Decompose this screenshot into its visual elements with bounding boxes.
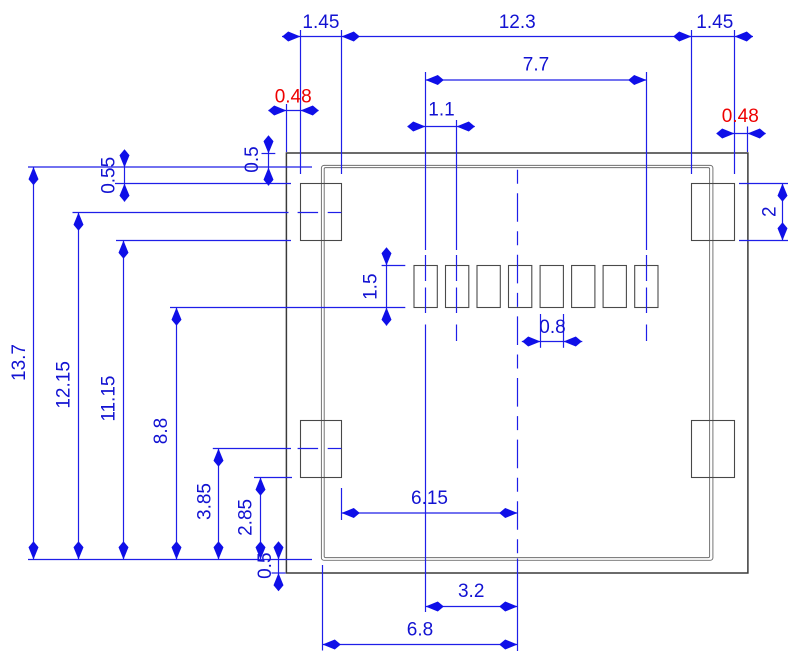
svg-text:2.85: 2.85 (236, 499, 257, 536)
vertical centerline of footprint (dashed) (517, 170, 519, 651)
extension line pad BL bottom edge (2.85) (254, 477, 292, 479)
extension line pad BL right edge for dim 6.15 (341, 488, 343, 520)
dim label 0.5 bottom (255, 552, 276, 578)
pad8 centerline / extension for dim 7.7 (646, 72, 648, 341)
svg-text:8.8: 8.8 (151, 418, 172, 444)
signal pads row (8 pads) (414, 266, 658, 308)
extension lines pad TR for dim 2 (739, 184, 788, 241)
extension line pad TR right edge (734, 30, 736, 174)
dim label 0.8 (539, 317, 565, 338)
dim 13.7 (29, 167, 39, 560)
dim label 2 (760, 206, 781, 217)
svg-text:3.85: 3.85 (194, 483, 215, 520)
pad1 centerline / extension line for dims 7.7, 1.1, 3.2 (425, 72, 427, 612)
dim label 8.8 (151, 418, 172, 444)
svg-text:0.5: 0.5 (242, 146, 263, 172)
dim label 6.8 (407, 620, 433, 641)
dim 0.48 right (red) (716, 129, 766, 139)
dim 7.7 (426, 75, 647, 85)
svg-text:0.5: 0.5 (255, 552, 276, 578)
dim label 1.5 (361, 273, 382, 299)
svg-text:0.55: 0.55 (98, 157, 119, 194)
dim label 1.1 (428, 99, 454, 120)
dim label 13.7 (9, 344, 30, 381)
svg-text:2: 2 (760, 206, 781, 217)
mounting pad bottom-right (692, 421, 735, 478)
dim 0.5 bottom (274, 541, 284, 591)
extension lines pad5 edges for dim 0.8 (541, 314, 564, 348)
extension line + TL pad centerline (12.15) (73, 212, 342, 214)
dim 6.8 (323, 640, 518, 650)
extension line + BL pad centerline (3.85) (213, 448, 342, 450)
svg-text:0.8: 0.8 (539, 317, 565, 338)
extension line pad TL bottom edge (11.15) (116, 240, 291, 242)
dim 6.15 (342, 508, 518, 518)
dim label 6.15 (411, 488, 448, 509)
extension line pad TL right edge (341, 30, 343, 174)
extension line inner outline top (28, 166, 312, 168)
dim label 12.3 (499, 12, 536, 33)
svg-text:12.3: 12.3 (499, 12, 536, 33)
dim 3.2 (426, 602, 518, 612)
svg-text:0.48: 0.48 (275, 86, 312, 107)
svg-text:6.15: 6.15 (411, 488, 448, 509)
dim label 3.2 (458, 581, 484, 602)
dim 0.5 top (264, 135, 274, 186)
extension line signal pads bottom (8.8 / 1.5) (170, 307, 405, 309)
svg-text:0.48: 0.48 (722, 106, 759, 127)
component body outline (286, 153, 748, 573)
dim 0.8 (signal pad width) (522, 337, 583, 347)
extension line body right edge (747, 127, 749, 153)
dim 3.85 (214, 449, 224, 560)
dim 1.45 / 12.3 / 1.45 top row (282, 32, 753, 42)
dim label 7.7 (523, 54, 549, 75)
svg-text:1.5: 1.5 (361, 273, 382, 299)
dim 11.15 (119, 241, 129, 560)
mounting pad top-left (301, 184, 342, 241)
extension line inner outline left for dim 6.8 (322, 565, 324, 651)
dim label 12.15 (54, 361, 75, 409)
dim 2 (pad height) (778, 184, 788, 241)
dim 0.55 (120, 149, 130, 202)
dim label 11.15 (99, 376, 120, 422)
dim 1.5 (signal pad height) (382, 247, 392, 326)
dim 1.1 (407, 122, 475, 132)
svg-text:11.15: 11.15 (99, 376, 120, 422)
dim 8.8 (172, 308, 182, 560)
svg-text:13.7: 13.7 (9, 344, 30, 381)
extension tick body top (0.5) (262, 153, 276, 155)
svg-text:1.45: 1.45 (302, 12, 339, 33)
dim label 0.48 right (722, 106, 759, 127)
svg-text:6.8: 6.8 (407, 620, 433, 641)
dim label 0.48 left (275, 86, 312, 107)
dim label 2.85 (236, 499, 257, 536)
extension line body left edge (286, 104, 288, 152)
svg-text:1.45: 1.45 (696, 12, 733, 33)
dim label 0.5 top (242, 146, 263, 172)
svg-text:3.2: 3.2 (458, 581, 484, 602)
dim label 3.85 (194, 483, 215, 520)
extension line pad TR left edge (691, 30, 693, 174)
dim 2.85 (256, 478, 266, 560)
dim label 1.45 left (302, 12, 339, 33)
extension line pad top edge (0.55) (115, 183, 291, 185)
extension tick body bottom (0.5) (272, 572, 286, 574)
dim label 1.45 right (696, 12, 733, 33)
dim 0.48 left (red) (268, 106, 319, 116)
mounting pad bottom-left (301, 421, 342, 478)
extension line inner outline bottom (28, 559, 312, 561)
svg-text:12.15: 12.15 (54, 361, 75, 409)
inner body outline (double line) (321, 165, 713, 560)
pad2 centerline / extension for dim 1.1 (456, 120, 458, 341)
dim 12.15 (74, 213, 84, 560)
dim label 0.55 (98, 157, 119, 194)
extension line pad TL left edge (300, 30, 302, 174)
svg-text:7.7: 7.7 (523, 54, 549, 75)
mounting pad top-right (692, 184, 735, 241)
svg-text:1.1: 1.1 (428, 99, 454, 120)
extension line signal pads top (1.5) (382, 265, 406, 267)
